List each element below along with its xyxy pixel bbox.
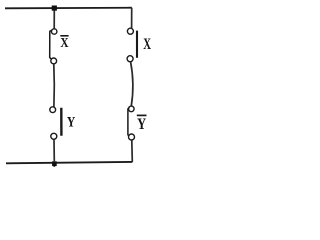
svg-text:Y: Y xyxy=(67,115,76,131)
svg-text:X: X xyxy=(143,36,151,53)
svg-text:Y: Y xyxy=(137,116,146,133)
svg-text:X: X xyxy=(60,35,68,50)
